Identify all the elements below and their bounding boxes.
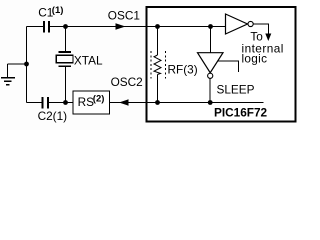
node: junction dot OSC1/sleep-inverter [208, 24, 213, 29]
capacitor C1 [43, 21, 50, 33]
arrowhead to internal logic [265, 34, 271, 42]
bubble of inverter U2 [248, 21, 253, 26]
bubble of inverter U3 [208, 73, 213, 78]
node: junction dot sleep-inverter/OSC2 rail [208, 100, 213, 105]
svg-text:PIC16F72: PIC16F72 [214, 106, 268, 120]
IC body U1 (PIC16F72 box) [147, 7, 296, 122]
node: junction dot ground/left rail [24, 62, 29, 67]
svg-text:OSC2: OSC2 [111, 75, 143, 89]
wire: ground stub [8, 63, 27, 65]
wire: RS to OSC2 pin [110, 102, 147, 104]
svg-text:(2): (2) [93, 94, 105, 105]
svg-text:RF(3): RF(3) [168, 62, 198, 76]
svg-text:RS: RS [78, 95, 95, 109]
arrowhead out of OSC2 pin [119, 99, 129, 105]
svg-text:logic: logic [242, 52, 268, 66]
arrowhead into OSC1 pin [116, 23, 126, 29]
resistor RF zigzag [154, 55, 161, 75]
wire: XTAL top lead [65, 27, 67, 53]
wire: left vertical rail [26, 27, 28, 103]
ground [1, 64, 15, 85]
node: junction dot bottom (XTAL / RS) [63, 100, 68, 105]
node: junction dot RF/OSC2 rail [155, 100, 160, 105]
wire: OSC2 bottom net (left rail to RS box) [27, 102, 74, 104]
svg-text:OSC1: OSC1 [108, 9, 140, 23]
crystal XTAL [56, 52, 73, 66]
wire: internal bottom rail [146, 102, 263, 104]
node: junction dot OSC1/RF [155, 24, 160, 29]
wire: SLEEP control line [217, 61, 238, 72]
wire: sleep-inverter input drop [210, 27, 212, 54]
op-amp style inverter U2 (output buffer) [226, 14, 248, 34]
dashed enclosure around RF [151, 51, 166, 79]
wire: XTAL bottom lead [65, 66, 67, 102]
wire: RF branch top [157, 27, 159, 56]
resistor RS box [73, 91, 110, 114]
inverter U3 (sleep gate, pointing down) [198, 53, 224, 73]
svg-text:SLEEP: SLEEP [217, 83, 255, 97]
wire: sleep inverter output to OSC2 rail [209, 78, 211, 102]
wire: OSC1 top net from left corner to inverter input [27, 26, 226, 28]
wire: inverter U2 output to internal logic [253, 24, 268, 35]
svg-text:XTAL: XTAL [74, 54, 103, 68]
svg-text:C2(1): C2(1) [38, 109, 68, 123]
capacitor C2 [41, 97, 49, 109]
svg-text:(1): (1) [52, 5, 64, 16]
wire: RF branch bottom [157, 75, 159, 103]
node A: junction dot top (C1 / XTAL) [63, 24, 68, 29]
